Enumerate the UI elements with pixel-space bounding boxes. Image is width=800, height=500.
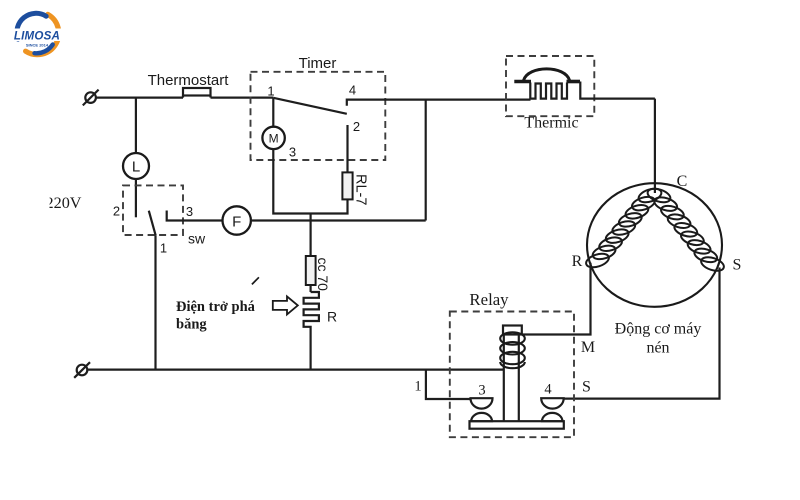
wire bottom rail [87, 369, 503, 371]
wire thermostat to timer node 1 [211, 96, 274, 98]
thermic right step wire [580, 82, 655, 99]
svg-text:S: S [582, 379, 591, 396]
svg-text:Relay: Relay [469, 290, 509, 309]
relay contact 3 upper [471, 398, 493, 408]
svg-text:sw: sw [188, 231, 206, 247]
svg-text:Điện trở phá: Điện trở phá [176, 299, 256, 315]
terminal bottom-left (neutral input) [74, 362, 90, 378]
wire timer node1 down to motor M [272, 98, 274, 127]
LIMOSA logo [9, 13, 65, 54]
svg-text:C: C [677, 173, 688, 190]
svg-text:S: S [733, 257, 742, 274]
wire L to switch contact 2 [135, 179, 137, 217]
svg-text:2: 2 [113, 204, 120, 219]
relay plunger shaft [504, 335, 519, 422]
svg-text:4: 4 [544, 382, 552, 398]
svg-text:băng: băng [176, 317, 207, 333]
thermostat 'Thermostart' element [183, 88, 211, 98]
svg-text:RL-7: RL-7 [353, 174, 369, 205]
svg-text:Động cơ máy: Động cơ máy [615, 321, 702, 338]
svg-text:M: M [269, 131, 279, 145]
svg-text:LIMOSA: LIMOSA [14, 29, 60, 42]
wire timer pin2 down [346, 125, 348, 172]
thermic heater comb [530, 83, 567, 99]
svg-text:L: L [132, 159, 140, 176]
relay contact 4 upper [541, 398, 564, 408]
svg-text:1: 1 [414, 379, 421, 395]
wire branch down to cc70 [310, 214, 312, 257]
svg-text:220V: 220V [46, 194, 82, 212]
svg-text:2: 2 [353, 119, 360, 134]
switch sw dashed box [123, 185, 183, 235]
svg-text:M: M [581, 339, 595, 356]
motor run winding coil (C-R) [584, 186, 663, 270]
wire cc70 to R [310, 285, 312, 292]
motor start winding coil (C-S) [646, 186, 726, 273]
junction / wire down to L lamp [135, 98, 137, 154]
thermic left stub [514, 80, 531, 84]
relay contact 4 lower [542, 413, 562, 421]
timer motor M [262, 127, 284, 149]
switch sw blade [149, 211, 156, 236]
svg-text:R: R [327, 309, 337, 325]
wire relay node 1 step [426, 370, 471, 399]
resistor RL-7 [342, 172, 352, 199]
wire motor S down to relay contact 4 [564, 268, 720, 399]
thermic right stub [567, 80, 581, 84]
thermic bimetal dome [524, 69, 570, 81]
relay coil rings [500, 332, 525, 368]
wire top from terminal to thermostat [96, 96, 183, 98]
annotation slash mark [252, 277, 259, 284]
relay dashed box [450, 312, 574, 438]
wire F to junction right [251, 219, 426, 221]
sw contact 3 tick [167, 211, 223, 221]
svg-text:1: 1 [267, 84, 274, 99]
svg-text:3: 3 [289, 145, 296, 160]
timer switch blade 1-4 [273, 98, 347, 114]
relay plunger top cap [503, 326, 522, 335]
terminal top-left (phase input) [83, 90, 99, 106]
timer dashed box [251, 72, 386, 160]
block arrow [273, 296, 298, 314]
svg-text:Timer: Timer [299, 55, 337, 72]
svg-text:Thermostart: Thermostart [148, 72, 230, 89]
svg-text:3: 3 [478, 383, 485, 399]
svg-text:cc 70: cc 70 [315, 258, 331, 292]
relay base bar [470, 421, 564, 429]
svg-text:4: 4 [349, 83, 356, 98]
svg-text:1: 1 [160, 241, 167, 256]
svg-text:SINCE 2014: SINCE 2014 [26, 43, 49, 48]
wire motor R down to relay coil (M) [522, 263, 591, 335]
wire sw common down to bottom rail [154, 236, 156, 370]
thermic dashed box [506, 56, 594, 116]
svg-text:Thermic: Thermic [524, 115, 578, 132]
fuse cc 70 [306, 256, 316, 285]
lamp L [123, 153, 149, 179]
svg-text:3: 3 [186, 204, 193, 219]
svg-text:F: F [232, 213, 241, 230]
compressor motor circle [587, 183, 722, 307]
wire down to compressor C [654, 99, 656, 193]
wire junction vertical (top wire to F wire) [425, 100, 427, 221]
resistor R (defrost heater zigzag) [304, 292, 319, 327]
svg-text:nén: nén [646, 340, 669, 357]
svg-text:R: R [572, 253, 583, 270]
wire R down to bottom rail [310, 327, 312, 370]
fan motor F [223, 206, 251, 234]
timer contact 4 tick + wire right [347, 100, 531, 106]
relay contact 3 lower [471, 413, 492, 421]
wire M down and across to RL-7 [273, 149, 347, 213]
